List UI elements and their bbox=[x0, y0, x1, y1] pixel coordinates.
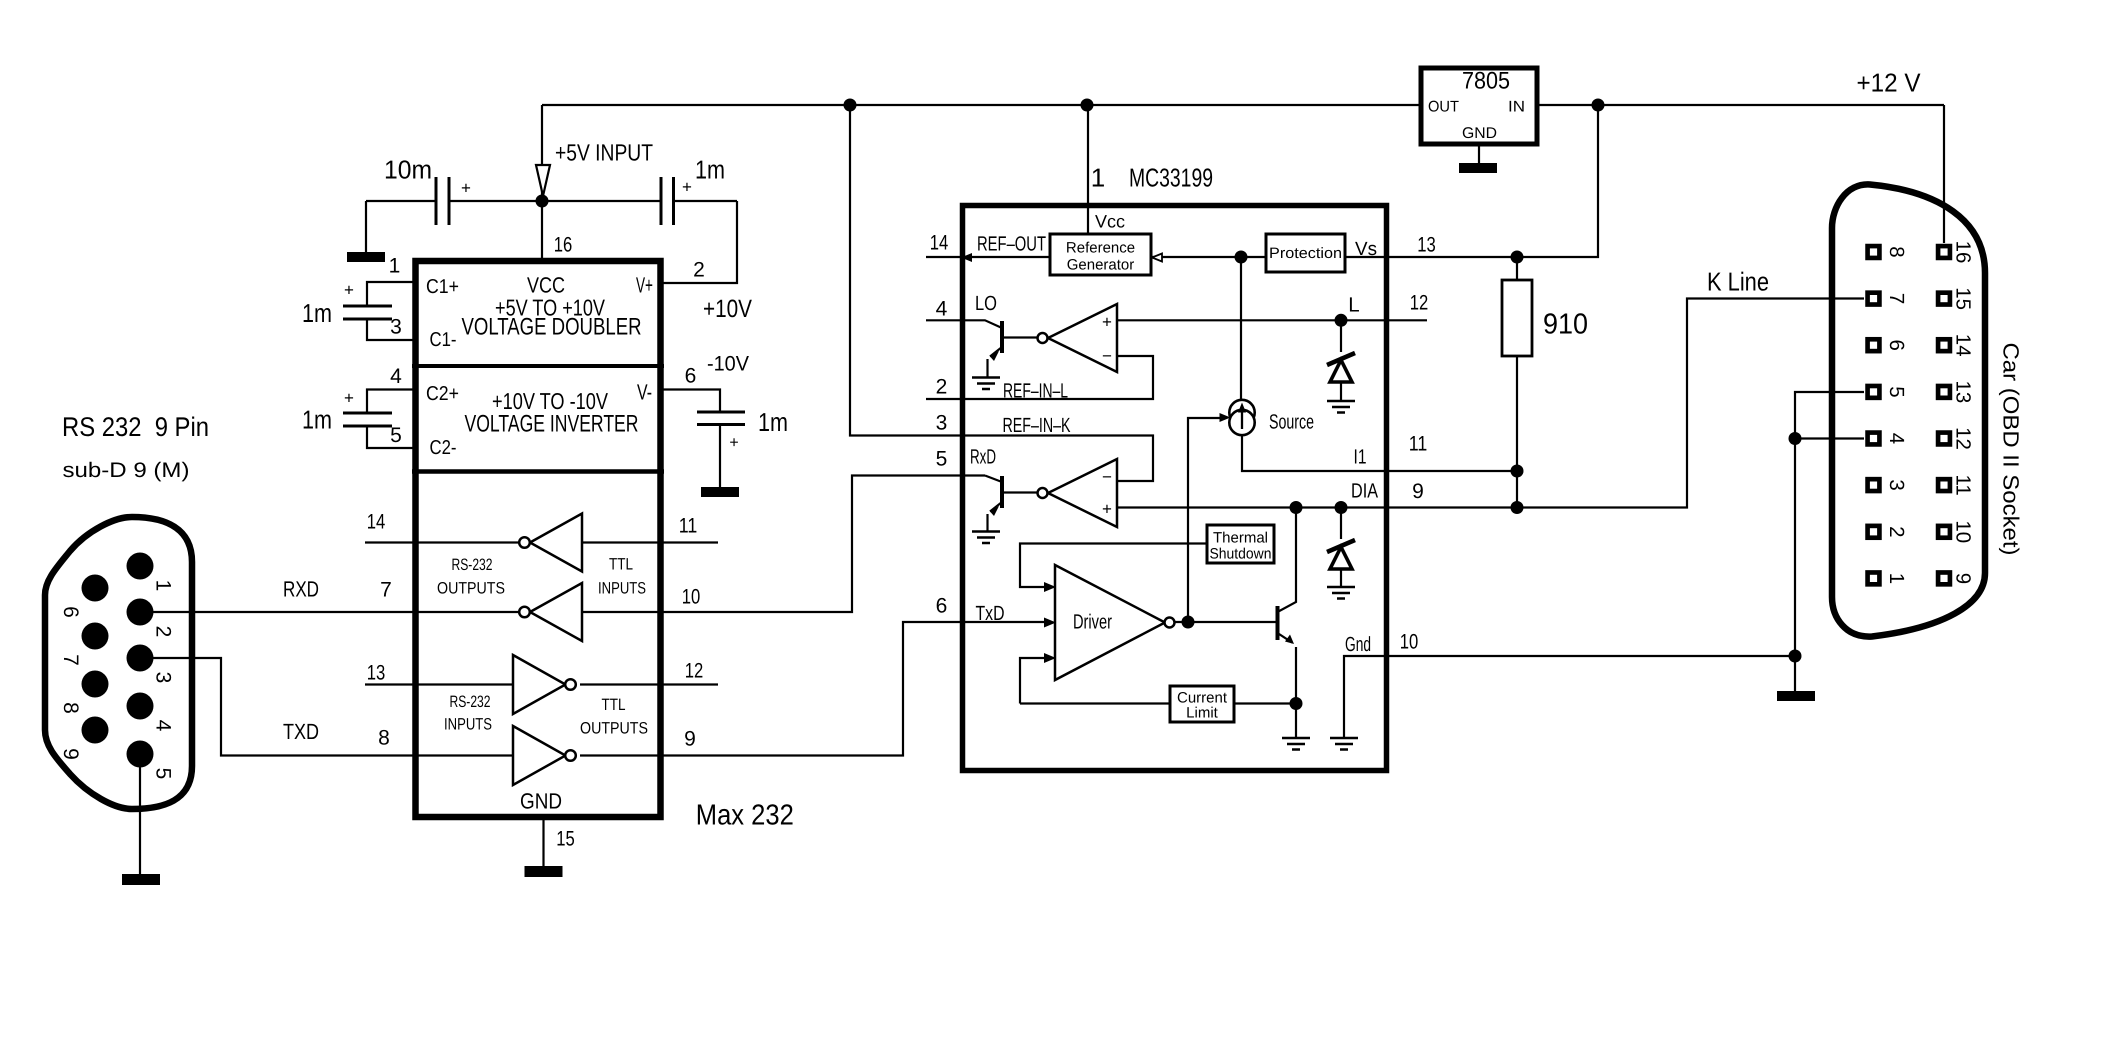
svg-text:+: + bbox=[344, 389, 354, 408]
svg-text:OUTPUTS: OUTPUTS bbox=[437, 580, 505, 598]
svg-text:Protection: Protection bbox=[1269, 245, 1342, 262]
svg-text:C1-: C1- bbox=[430, 329, 457, 351]
svg-text:+: + bbox=[344, 281, 354, 300]
svg-text:12: 12 bbox=[1952, 427, 1975, 450]
svg-text:1: 1 bbox=[152, 580, 175, 592]
svg-text:RS 232 9 Pin: RS 232 9 Pin bbox=[62, 412, 209, 442]
svg-text:4: 4 bbox=[1885, 433, 1908, 444]
svg-text:3: 3 bbox=[936, 412, 948, 435]
svg-text:L: L bbox=[1348, 294, 1359, 317]
svg-text:Shutdown: Shutdown bbox=[1210, 546, 1272, 563]
svg-text:1m: 1m bbox=[302, 298, 332, 328]
svg-text:INPUTS: INPUTS bbox=[444, 716, 492, 734]
svg-text:OUTPUTS: OUTPUTS bbox=[580, 720, 648, 738]
svg-text:REF–IN–L: REF–IN–L bbox=[1003, 380, 1068, 403]
svg-text:REF–IN–K: REF–IN–K bbox=[1003, 414, 1071, 437]
svg-text:TXD: TXD bbox=[283, 719, 319, 744]
svg-text:+: + bbox=[729, 435, 738, 452]
svg-text:1: 1 bbox=[1091, 163, 1105, 193]
svg-text:+: + bbox=[461, 179, 471, 198]
svg-text:10: 10 bbox=[1400, 631, 1419, 654]
svg-text:13: 13 bbox=[367, 662, 386, 685]
svg-text:5: 5 bbox=[390, 424, 402, 447]
svg-text:10m: 10m bbox=[384, 155, 432, 185]
svg-text:1: 1 bbox=[389, 255, 401, 278]
svg-text:RXD: RXD bbox=[283, 577, 319, 602]
svg-text:+5V INPUT: +5V INPUT bbox=[555, 140, 653, 166]
svg-text:MC33199: MC33199 bbox=[1129, 163, 1213, 193]
svg-text:+12 V: +12 V bbox=[1857, 68, 1922, 98]
svg-text:V+: V+ bbox=[636, 273, 653, 298]
svg-text:GND: GND bbox=[1462, 125, 1497, 142]
svg-text:14: 14 bbox=[1952, 334, 1975, 357]
svg-text:Thermal: Thermal bbox=[1213, 530, 1268, 547]
svg-text:IN: IN bbox=[1508, 99, 1525, 116]
svg-text:6: 6 bbox=[59, 606, 82, 618]
svg-text:INPUTS: INPUTS bbox=[598, 580, 646, 598]
svg-text:TxD: TxD bbox=[976, 602, 1005, 625]
svg-text:3: 3 bbox=[390, 316, 402, 339]
svg-text:V-: V- bbox=[637, 380, 652, 405]
svg-text:9: 9 bbox=[1952, 573, 1975, 584]
svg-text:+: + bbox=[1102, 313, 1112, 332]
svg-text:RxD: RxD bbox=[970, 446, 996, 469]
svg-text:6: 6 bbox=[936, 595, 948, 618]
svg-text:13: 13 bbox=[1417, 234, 1436, 257]
svg-text:7: 7 bbox=[380, 579, 392, 602]
svg-text:LO: LO bbox=[975, 292, 997, 315]
svg-text:13: 13 bbox=[1952, 380, 1975, 403]
svg-text:sub-D 9 (M): sub-D 9 (M) bbox=[63, 459, 190, 482]
svg-text:Max 232: Max 232 bbox=[696, 799, 794, 831]
svg-text:REF–OUT: REF–OUT bbox=[977, 233, 1046, 256]
svg-text:15: 15 bbox=[556, 828, 575, 851]
svg-text:9: 9 bbox=[684, 728, 696, 751]
svg-text:1: 1 bbox=[1885, 573, 1908, 584]
svg-text:2: 2 bbox=[693, 259, 705, 282]
svg-text:11: 11 bbox=[679, 515, 698, 538]
svg-text:GND: GND bbox=[520, 789, 562, 814]
svg-text:7: 7 bbox=[59, 654, 82, 666]
svg-text:RS-232: RS-232 bbox=[452, 556, 493, 574]
svg-text:16: 16 bbox=[554, 234, 573, 257]
svg-text:2: 2 bbox=[936, 376, 948, 399]
svg-text:7805: 7805 bbox=[1462, 68, 1510, 95]
svg-text:8: 8 bbox=[378, 727, 390, 750]
svg-text:3: 3 bbox=[152, 672, 175, 684]
svg-text:Gnd: Gnd bbox=[1345, 633, 1371, 656]
svg-text:C2+: C2+ bbox=[426, 383, 459, 405]
svg-text:1m: 1m bbox=[758, 407, 788, 437]
svg-text:-10V: -10V bbox=[707, 353, 749, 376]
svg-text:Reference: Reference bbox=[1066, 240, 1135, 257]
svg-text:4: 4 bbox=[390, 365, 402, 388]
svg-text:11: 11 bbox=[1952, 474, 1975, 495]
svg-text:9: 9 bbox=[59, 748, 82, 760]
svg-text:8: 8 bbox=[1885, 246, 1908, 257]
svg-text:7: 7 bbox=[1885, 293, 1908, 304]
svg-text:VOLTAGE INVERTER: VOLTAGE INVERTER bbox=[465, 411, 639, 438]
svg-text:8: 8 bbox=[59, 702, 82, 714]
svg-text:5: 5 bbox=[1885, 386, 1908, 397]
svg-text:+: + bbox=[682, 178, 692, 197]
svg-text:OUT: OUT bbox=[1428, 99, 1460, 116]
svg-text:1m: 1m bbox=[302, 405, 332, 435]
svg-text:910: 910 bbox=[1543, 309, 1588, 341]
svg-text:5: 5 bbox=[936, 448, 948, 471]
svg-text:+: + bbox=[1102, 500, 1112, 519]
svg-text:14: 14 bbox=[930, 232, 949, 255]
svg-text:DIA: DIA bbox=[1351, 480, 1378, 503]
svg-text:−: − bbox=[1102, 347, 1112, 366]
svg-text:10: 10 bbox=[1952, 520, 1975, 543]
svg-text:1m: 1m bbox=[695, 155, 725, 185]
svg-text:4: 4 bbox=[152, 720, 175, 732]
svg-text:4: 4 bbox=[936, 298, 948, 321]
svg-text:Driver: Driver bbox=[1073, 611, 1112, 634]
svg-text:C2-: C2- bbox=[430, 437, 457, 459]
svg-text:2: 2 bbox=[1885, 526, 1908, 537]
svg-text:I1: I1 bbox=[1354, 446, 1367, 469]
svg-text:K Line: K Line bbox=[1707, 267, 1769, 297]
svg-text:Source: Source bbox=[1269, 411, 1314, 434]
svg-text:11: 11 bbox=[1409, 433, 1428, 456]
svg-text:TTL: TTL bbox=[609, 556, 633, 574]
svg-text:16: 16 bbox=[1952, 241, 1975, 264]
svg-text:RS-232: RS-232 bbox=[450, 693, 491, 711]
svg-text:Vcc: Vcc bbox=[1095, 212, 1125, 232]
svg-text:TTL: TTL bbox=[602, 696, 626, 714]
svg-text:−: − bbox=[1102, 468, 1112, 487]
svg-text:14: 14 bbox=[367, 511, 386, 534]
svg-text:Vs: Vs bbox=[1355, 239, 1377, 260]
svg-text:10: 10 bbox=[682, 586, 701, 609]
svg-text:9: 9 bbox=[1412, 480, 1424, 503]
svg-text:VOLTAGE DOUBLER: VOLTAGE DOUBLER bbox=[462, 314, 642, 341]
svg-text:3: 3 bbox=[1885, 479, 1908, 490]
svg-text:C1+: C1+ bbox=[426, 276, 459, 298]
svg-text:12: 12 bbox=[685, 660, 704, 683]
svg-text:Car (OBD II Socket): Car (OBD II Socket) bbox=[1999, 343, 2024, 556]
svg-text:+10V: +10V bbox=[703, 295, 752, 323]
svg-text:12: 12 bbox=[1410, 292, 1429, 315]
svg-text:15: 15 bbox=[1952, 287, 1975, 310]
svg-text:2: 2 bbox=[152, 626, 175, 638]
svg-text:6: 6 bbox=[685, 365, 697, 388]
svg-text:6: 6 bbox=[1885, 339, 1908, 350]
svg-text:Generator: Generator bbox=[1067, 257, 1135, 274]
svg-text:5: 5 bbox=[152, 768, 175, 780]
svg-text:Limit: Limit bbox=[1186, 705, 1219, 722]
